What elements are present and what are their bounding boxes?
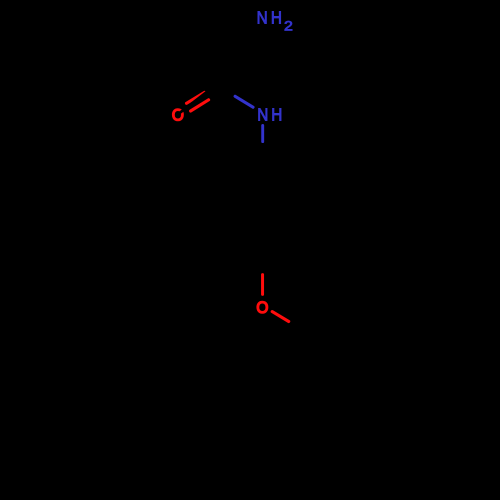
svg-text:H: H bbox=[271, 9, 282, 28]
svg-text:2: 2 bbox=[284, 19, 293, 34]
svg-text:H: H bbox=[271, 105, 282, 124]
atom label N3 amide: NH text bbox=[257, 105, 282, 124]
svg-text:O: O bbox=[172, 106, 184, 125]
atom label N1 amine: NH2 text bbox=[257, 9, 293, 34]
bond C2=O1 double bond, lower red line (O half) bbox=[191, 100, 209, 111]
svg-text:O: O bbox=[256, 299, 268, 318]
bond C7-O8 ring to ether O (O half, red vertical) bbox=[261, 275, 264, 295]
wire: benzene ring C4-C5-C6-C7 (black, invisible) bbox=[216, 169, 309, 257]
svg-text:N: N bbox=[257, 9, 268, 28]
bond O8-C9 ether to chain (O half, red diagonal) bbox=[272, 312, 289, 322]
bond C2-N3 amide (N half, blue) bbox=[235, 96, 253, 107]
svg-text:N: N bbox=[257, 105, 268, 124]
bond C2=O1 double bond, upper red line (O half) bbox=[187, 92, 205, 103]
invisible carbon skeleton (black on black): C2 apex bbox=[179, 81, 222, 114]
bond N3-C4 to ring (N half, blue vertical) bbox=[261, 125, 264, 141]
